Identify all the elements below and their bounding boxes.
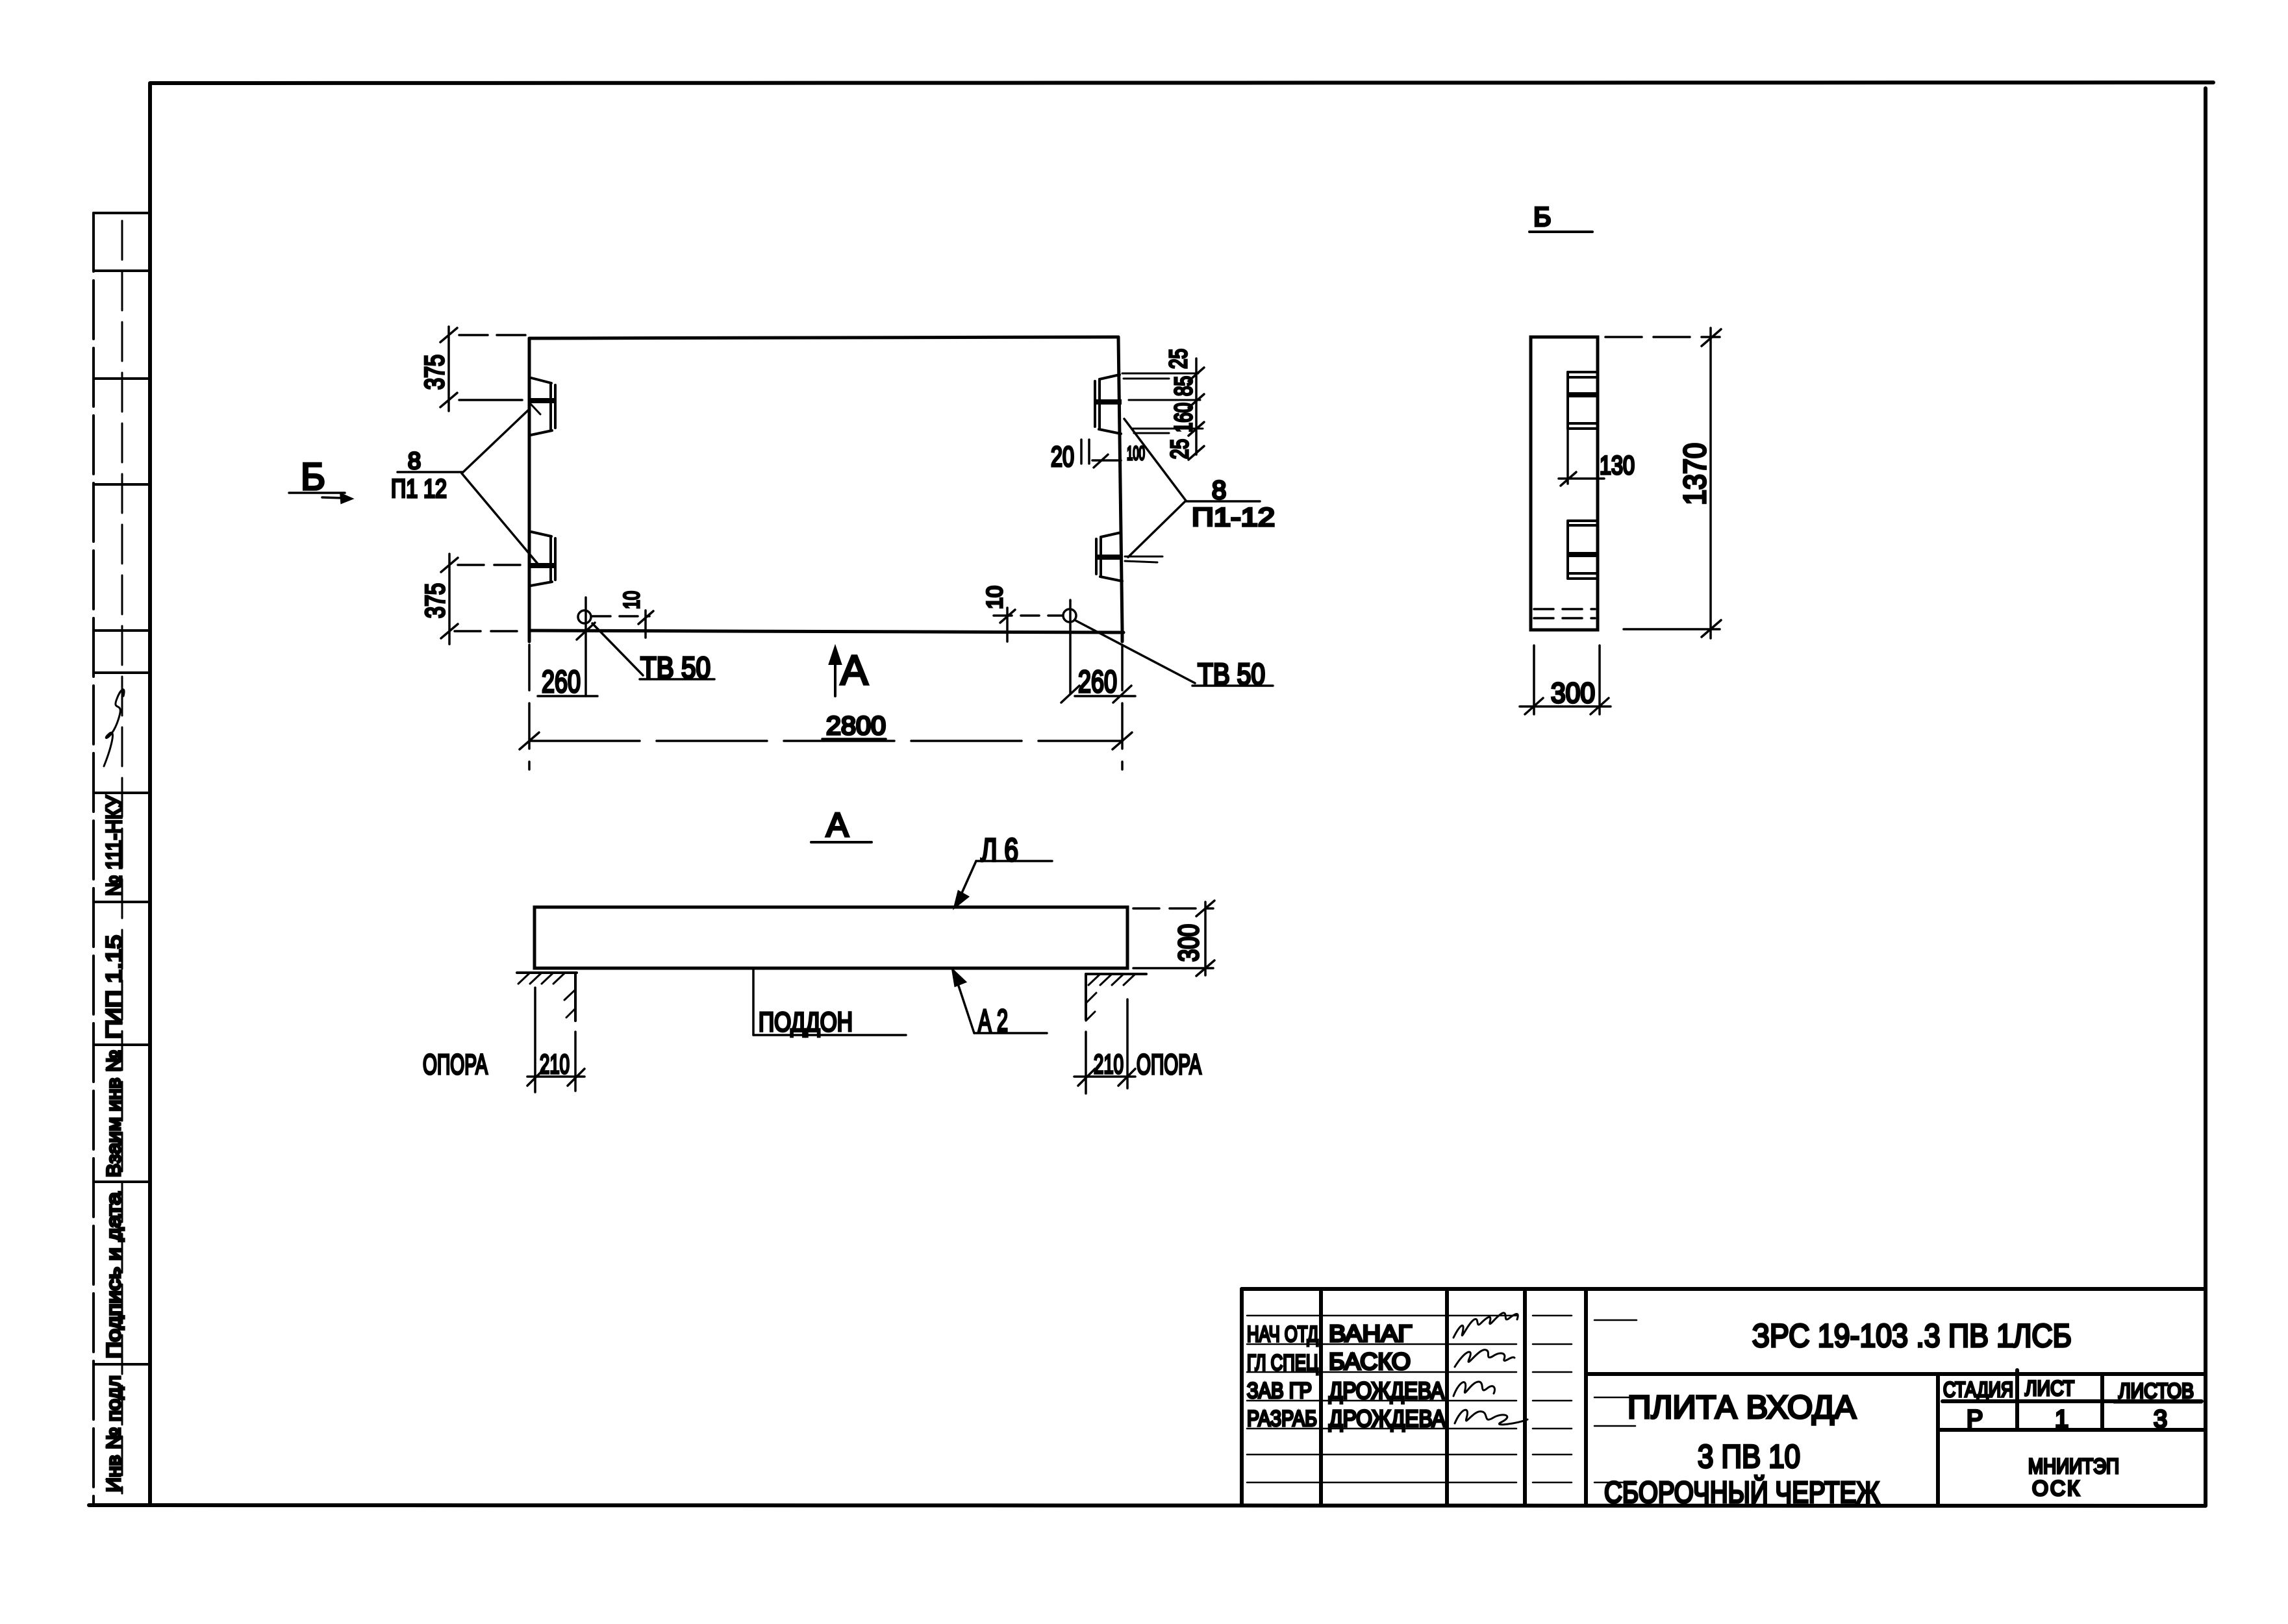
label 8 / П1 12 left with leaders	[397, 410, 540, 567]
plan bottom edge dashes to the left	[455, 630, 526, 632]
svg-text:Б: Б	[1533, 201, 1552, 232]
ПОДДОН label	[753, 969, 906, 1035]
svg-text:Б: Б	[301, 456, 325, 498]
signatures squiggles	[1453, 1313, 1527, 1425]
svg-text:ЛИСТОВ: ЛИСТОВ	[2118, 1379, 2194, 1403]
left strip rotated labels	[102, 795, 127, 1492]
svg-text:МНИИТЭП: МНИИТЭП	[2028, 1455, 2119, 1478]
svg-text:Инв № подл: Инв № подл	[103, 1375, 125, 1492]
dimension 2800	[520, 645, 1132, 769]
dim 1370	[1605, 328, 1721, 638]
svg-text:ЛИСТ: ЛИСТ	[2025, 1377, 2074, 1400]
svg-text:ОСК: ОСК	[2032, 1477, 2081, 1500]
notch pocket bottom-right	[1096, 532, 1123, 581]
svg-text:ВАНАГ: ВАНАГ	[1329, 1320, 1412, 1347]
svg-text:ТВ 50: ТВ 50	[1198, 657, 1265, 691]
svg-text:3: 3	[2154, 1406, 2167, 1433]
plan outline	[529, 337, 1124, 642]
svg-text:375: 375	[420, 583, 450, 618]
svg-text:3 ПВ 10: 3 ПВ 10	[1698, 1438, 1800, 1475]
svg-text:БАСКО: БАСКО	[1329, 1348, 1411, 1375]
section Б pocket top	[1568, 372, 1598, 429]
dimension 375 bottom-left	[441, 554, 526, 644]
TB50 anchor circle right	[994, 609, 1076, 622]
TB50 anchor circle left	[578, 610, 649, 623]
svg-text:100: 100	[1127, 443, 1145, 464]
bottom-right notch extension lines	[1125, 556, 1163, 562]
svg-text:ЗРС 19-103 .3 ПВ 1ЛСБ: ЗРС 19-103 .3 ПВ 1ЛСБ	[1752, 1318, 2072, 1354]
svg-text:20: 20	[1051, 441, 1074, 473]
small dim 20 / 100 top-right	[1081, 440, 1121, 468]
section mark A below plan	[830, 648, 840, 696]
svg-text:210: 210	[540, 1049, 570, 1079]
dim 210 right	[1074, 999, 1135, 1093]
svg-text:25: 25	[1166, 439, 1194, 459]
dimension 260 left	[577, 597, 595, 696]
left attachment strip	[94, 213, 149, 1505]
support left	[517, 973, 577, 1021]
svg-text:ПОДДОН: ПОДДОН	[759, 1006, 853, 1037]
dim stack 25/85/160/25 (rotated)	[1188, 358, 1204, 460]
leader TB50 right	[1075, 620, 1273, 686]
svg-text:ТВ 50: ТВ 50	[640, 651, 710, 684]
section Б pocket bottom	[1568, 521, 1598, 579]
left strip signature	[104, 690, 124, 766]
svg-text:25: 25	[1165, 349, 1192, 369]
svg-text:СБОРОЧНЫЙ ЧЕРТЕЖ: СБОРОЧНЫЙ ЧЕРТЕЖ	[1604, 1475, 1879, 1509]
notch pocket top-left	[529, 378, 555, 435]
svg-text:300: 300	[1551, 677, 1595, 709]
svg-text:1: 1	[2055, 1406, 2068, 1433]
svg-text:ЗАВ ГР: ЗАВ ГР	[1247, 1379, 1312, 1403]
svg-text:СТАДИЯ: СТАДИЯ	[1943, 1378, 2013, 1401]
svg-text:РАЗРАБ: РАЗРАБ	[1247, 1406, 1317, 1431]
svg-text:160: 160	[1170, 403, 1198, 432]
notch pocket bottom-left	[529, 532, 555, 586]
dim 300 (slab)	[1133, 901, 1214, 976]
svg-text:10: 10	[983, 586, 1007, 609]
small dim 10 right (rotated)	[1000, 608, 1015, 642]
svg-text:Л 6: Л 6	[981, 832, 1018, 868]
svg-text:ПЛИТА ВХОДА: ПЛИТА ВХОДА	[1628, 1389, 1857, 1425]
svg-text:Р: Р	[1967, 1406, 1983, 1433]
svg-text:130: 130	[1600, 451, 1635, 480]
svg-text:300: 300	[1173, 924, 1205, 962]
svg-text:10: 10	[620, 591, 644, 609]
label А 2 leader	[953, 970, 1047, 1033]
section Б outline	[1531, 337, 1598, 630]
svg-text:260: 260	[1078, 665, 1117, 699]
svg-text:8: 8	[1212, 476, 1226, 505]
svg-text:260: 260	[542, 665, 581, 699]
svg-text:375: 375	[419, 355, 449, 390]
dimension 375 top-left	[440, 327, 528, 411]
dim 130	[1559, 429, 1604, 486]
dimension 260 right	[1061, 600, 1131, 703]
svg-text:ГЛ СПЕЦ: ГЛ СПЕЦ	[1247, 1351, 1318, 1375]
slab outline	[534, 907, 1127, 968]
svg-text:П1-12: П1-12	[1192, 503, 1275, 532]
svg-text:Подпись и дата: Подпись и дата	[103, 1192, 125, 1358]
svg-text:210: 210	[1094, 1049, 1124, 1079]
svg-text:А: А	[840, 647, 868, 693]
right notch extension lines	[1122, 373, 1203, 433]
svg-text:ГИП 1.15: ГИП 1.15	[102, 935, 127, 1039]
svg-text:ОПОРА: ОПОРА	[1137, 1049, 1201, 1081]
leader TB50 left	[592, 623, 714, 679]
label Л 6 leader	[955, 861, 1052, 907]
svg-text:Взаим инв №: Взаим инв №	[103, 1050, 125, 1177]
svg-text:8: 8	[408, 447, 421, 474]
svg-text:2800: 2800	[826, 712, 886, 740]
svg-text:ОПОРА: ОПОРА	[423, 1049, 488, 1081]
svg-text:1370: 1370	[1678, 443, 1713, 505]
svg-text:НАЧ ОТД: НАЧ ОТД	[1247, 1322, 1318, 1347]
label 8 / П1-12 right with leaders	[1124, 419, 1260, 557]
svg-text:ДРОЖДЕВА: ДРОЖДЕВА	[1329, 1377, 1444, 1404]
section Б bottom dashed lines	[1534, 609, 1595, 618]
svg-text:П1 12: П1 12	[391, 475, 447, 503]
title table row lines	[1247, 1316, 1637, 1482]
svg-text:№ 111-НКУ: № 111-НКУ	[102, 795, 127, 896]
notch pocket top-right	[1095, 375, 1122, 434]
small dim 10 left (rotated)	[638, 610, 653, 638]
dim 210 left	[527, 988, 585, 1092]
svg-text:85: 85	[1170, 376, 1198, 396]
dim 300 (section Б)	[1520, 645, 1611, 714]
svg-text:А: А	[826, 806, 849, 844]
title names	[1329, 1320, 1446, 1432]
section mark Б left	[289, 493, 351, 503]
title roles	[1247, 1322, 1318, 1431]
svg-text:ДРОЖДЕВА: ДРОЖДЕВА	[1329, 1405, 1446, 1432]
svg-text:А 2: А 2	[978, 1004, 1008, 1038]
support right	[1086, 974, 1146, 1021]
